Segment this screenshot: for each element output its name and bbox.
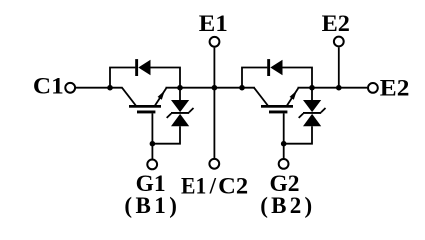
- wire Z1 bottom lead and link to gate: [152, 126, 180, 144]
- svg-text:(B2): (B2): [260, 193, 312, 218]
- wire node A riser and top rail to D1: [110, 68, 135, 88]
- zener pair Z2 right tick: [321, 108, 326, 112]
- transistor Q2 emitter arrow: [290, 90, 297, 99]
- svg-text:E1: E1: [199, 11, 228, 36]
- terminal E1/C2: [209, 159, 219, 169]
- node A junction dot: [107, 85, 113, 91]
- transistor Q1 channel bar: [129, 105, 161, 108]
- svg-text:/: /: [209, 173, 217, 198]
- zener pair Z2 lower triangle: [303, 114, 321, 126]
- terminal C1: [65, 83, 75, 93]
- wire E2 aux riser: [338, 47, 340, 87]
- wire Q1 emitter diagonal: [155, 88, 166, 105]
- transistor Q1 gate bar: [137, 111, 155, 114]
- terminal G1: [147, 160, 157, 170]
- svg-text:E1: E1: [181, 173, 206, 198]
- diode D2 cathode bar: [267, 59, 270, 76]
- zener pair Z1 upper triangle: [171, 100, 189, 112]
- svg-text:C2: C2: [218, 173, 248, 198]
- wire Q2 gate lead: [283, 113, 285, 159]
- zener pair Z1 right tick: [189, 108, 194, 112]
- zener pair Z2 left tick: [299, 114, 304, 118]
- wire Q1 gate lead: [151, 113, 153, 159]
- wire main rail node B to right collector stub: [166, 87, 255, 89]
- wire top rail from D1 down to node B and zener Z1 top: [150, 68, 180, 101]
- svg-text:E2: E2: [322, 11, 350, 36]
- diode D2 triangle: [270, 60, 282, 75]
- node B junction dot: [177, 85, 183, 91]
- wire top rail from D2 down to node D and zener Z2 top: [282, 68, 312, 101]
- wire E1 bus vertical: [213, 48, 215, 158]
- node G1 tap junction dot: [150, 141, 156, 147]
- diode D1 cathode bar: [135, 59, 138, 76]
- svg-text:(B1): (B1): [124, 193, 176, 218]
- zener pair Z1 lower triangle: [171, 114, 189, 126]
- zener pair Z2 bar: [303, 112, 321, 114]
- node G2 tap junction dot: [281, 141, 287, 147]
- transistor Q2 channel bar: [261, 105, 293, 108]
- zener pair Z2 upper triangle: [303, 100, 321, 112]
- node E1 bus junction dot: [212, 85, 218, 91]
- diode D1 triangle: [138, 60, 150, 75]
- terminal E2 (aux): [334, 37, 344, 47]
- transistor Q2 gate bar: [269, 111, 287, 114]
- zener pair Z1 left tick: [167, 114, 172, 118]
- zener pair Z1 bar: [171, 112, 189, 114]
- wire Q2 collector diagonal: [254, 88, 268, 106]
- node E2 riser junction dot: [336, 85, 342, 91]
- terminal E2 (main): [368, 83, 378, 93]
- svg-text:E2: E2: [380, 76, 410, 101]
- wire Z2 bottom lead and link to gate: [284, 126, 312, 144]
- wire Q1 collector diagonal: [122, 88, 136, 106]
- transistor Q1 emitter arrow: [158, 90, 165, 99]
- terminal G2: [279, 159, 289, 169]
- wire C1 to node A and collector stub: [76, 87, 123, 89]
- wire Q2 emitter diagonal: [287, 88, 298, 105]
- svg-text:C1: C1: [33, 74, 64, 99]
- terminal E1 (aux): [210, 37, 220, 47]
- node D junction dot: [309, 85, 315, 91]
- node C junction dot: [239, 85, 245, 91]
- wire main rail node D to E2 terminal: [298, 87, 368, 89]
- wire node C riser and top rail to D2: [242, 68, 267, 88]
